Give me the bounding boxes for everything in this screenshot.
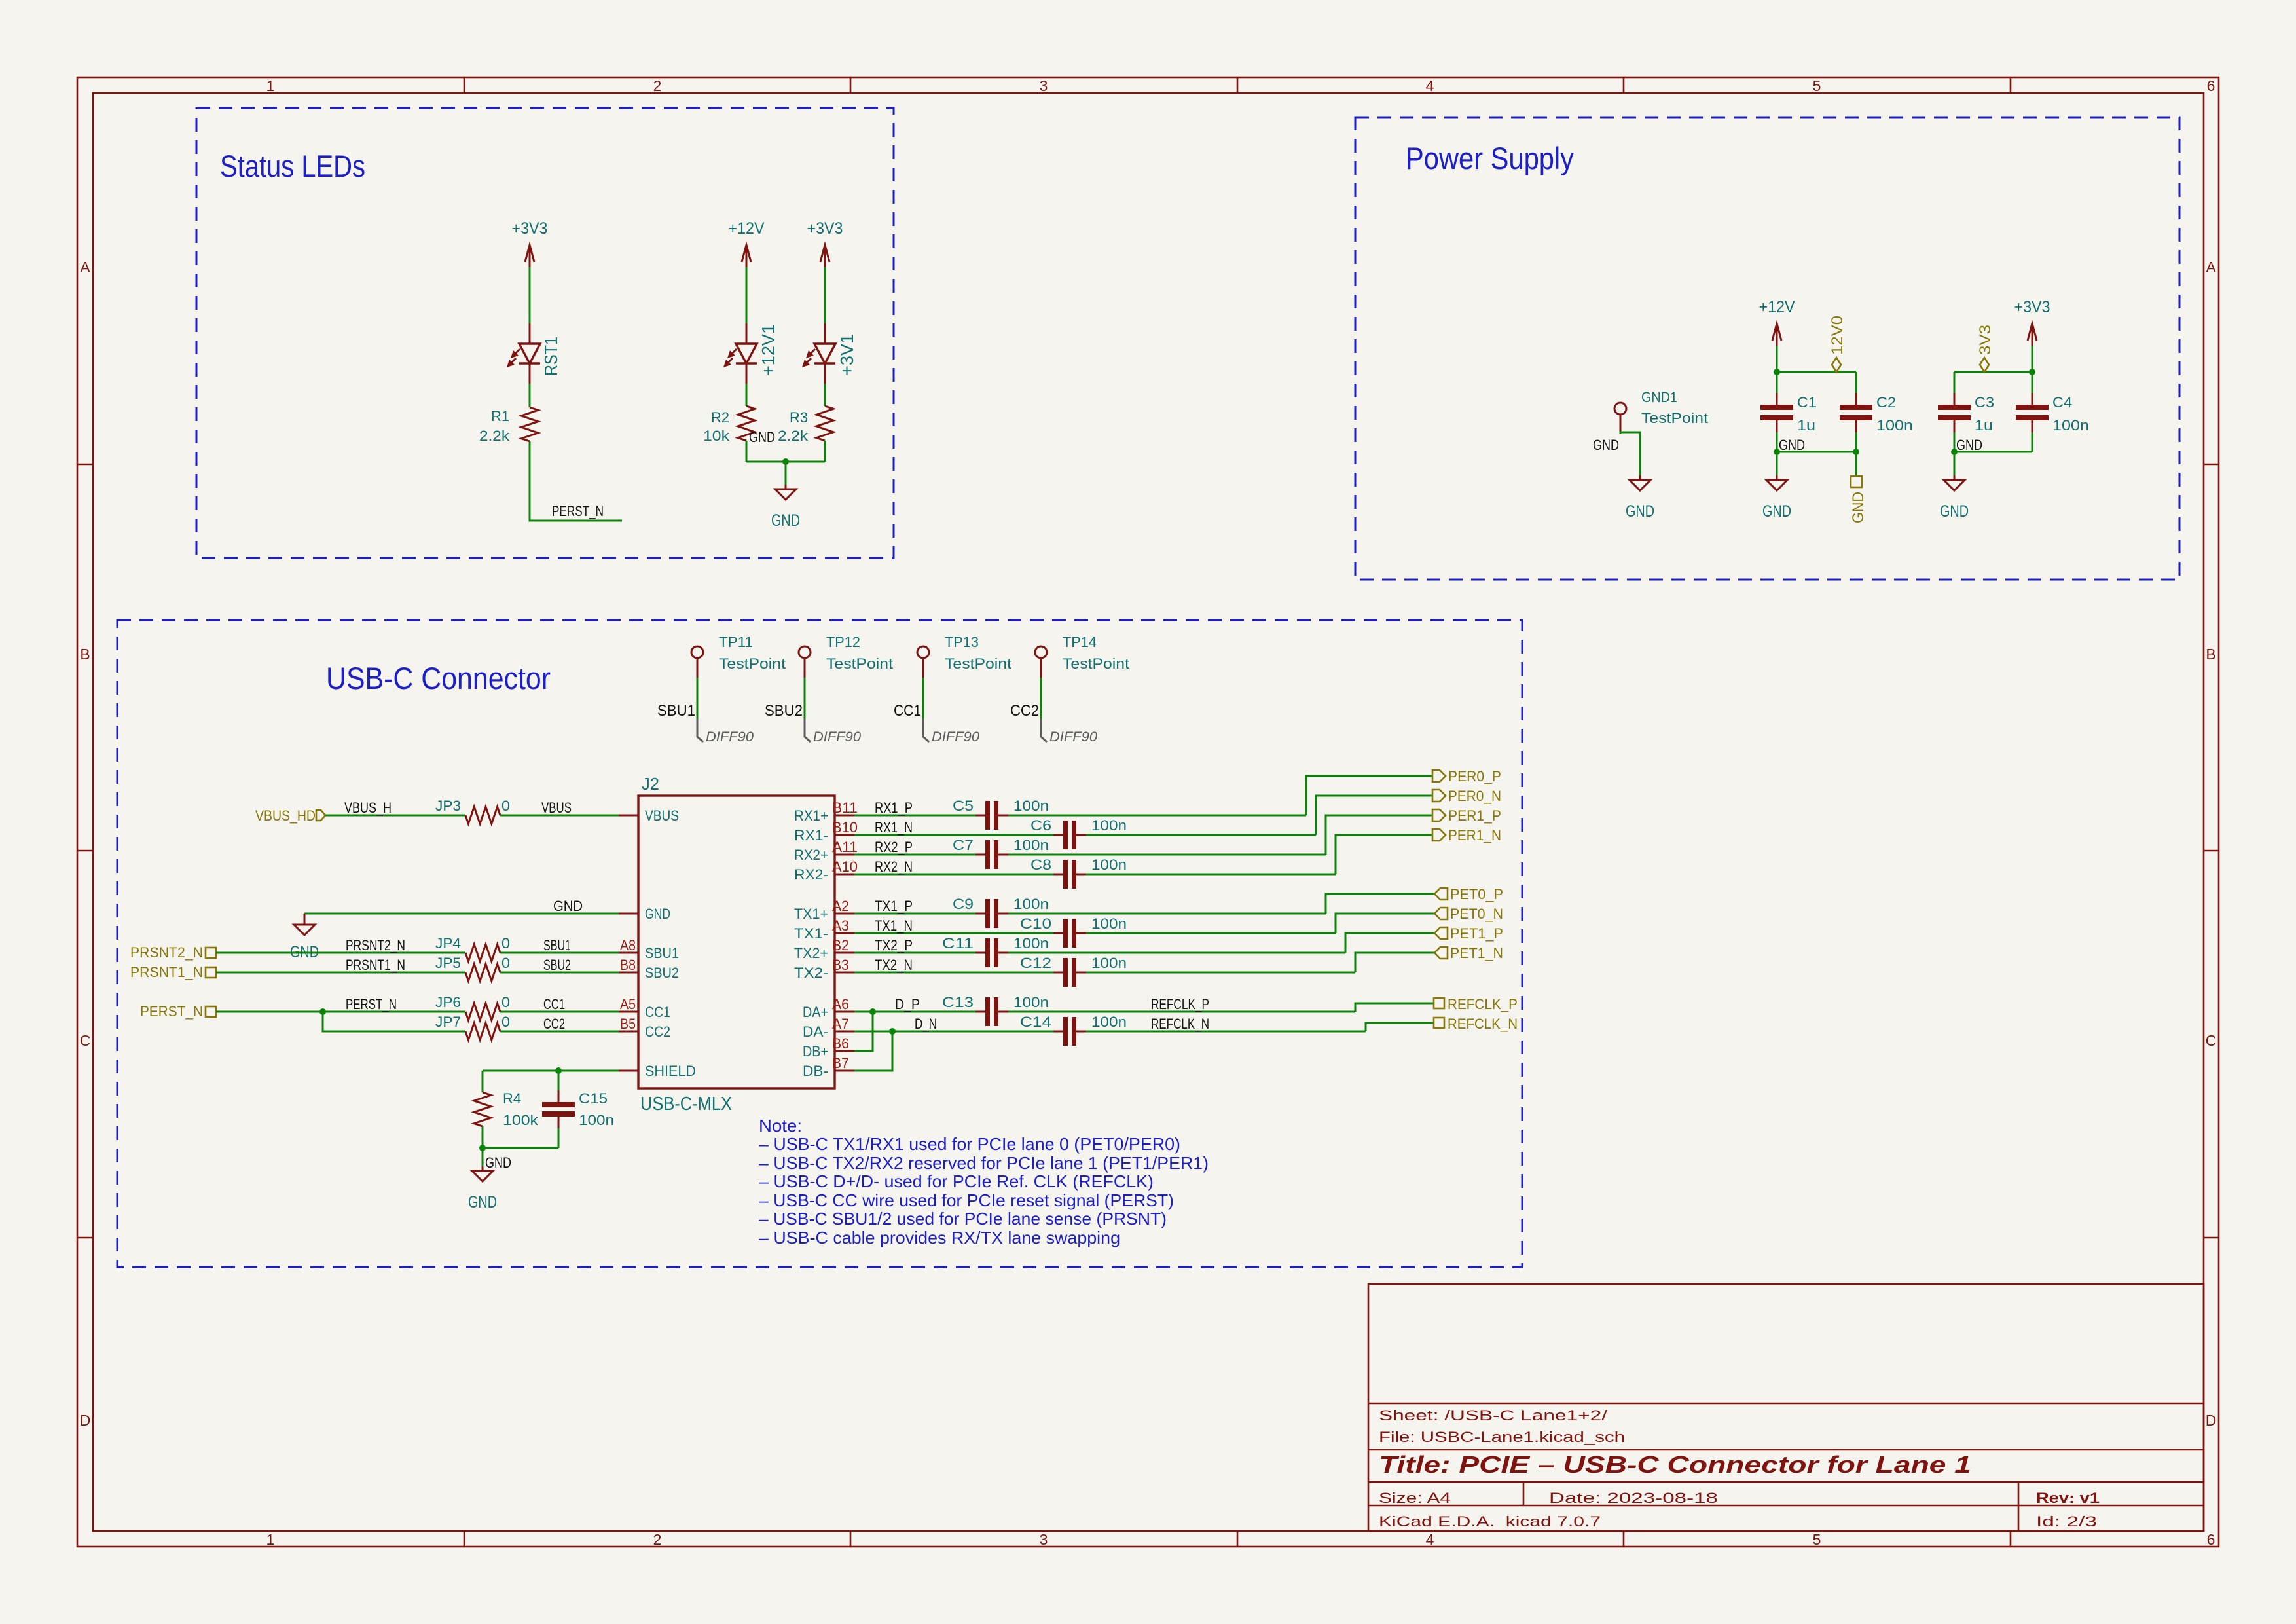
svg-text:100n: 100n [1091, 1014, 1127, 1030]
svg-text:C9: C9 [953, 896, 974, 912]
capacitor C8 100n [1030, 857, 1127, 889]
wire R4 to gnd rail [482, 1126, 484, 1148]
svg-text:1u: 1u [1975, 417, 1993, 434]
svg-text:C: C [2206, 1032, 2217, 1049]
svg-text:J2: J2 [642, 774, 659, 794]
svg-text:GND: GND [1626, 502, 1654, 521]
svg-text:C: C [80, 1032, 91, 1049]
svg-text:VBUS_H: VBUS_H [344, 800, 392, 816]
svg-text:C8: C8 [1030, 857, 1051, 873]
svg-text:– USB-C cable provides RX/TX l: – USB-C cable provides RX/TX lane swappi… [759, 1228, 1120, 1247]
svg-text:5: 5 [1813, 1531, 1821, 1548]
svg-text:TP12: TP12 [826, 634, 860, 650]
wire TX2_N [854, 972, 1053, 974]
netclass directive DIFF90 (TP12) [805, 718, 811, 742]
svg-text:PRSNT2_N: PRSNT2_N [346, 937, 405, 953]
J2 pin RX2+ (right) [835, 854, 854, 856]
J2 pin TX1+ (right) [835, 913, 854, 915]
capacitor C15 100n [558, 1071, 560, 1090]
wire JP5 to J2 SBU2 [500, 972, 619, 974]
svg-text:A3: A3 [832, 917, 849, 934]
svg-text:PET1_P: PET1_P [1450, 925, 1503, 942]
svg-text:SBU1: SBU1 [543, 937, 571, 953]
svg-text:R2: R2 [711, 409, 729, 426]
svg-text:PER0_P: PER0_P [1448, 768, 1501, 784]
svg-text:SBU1: SBU1 [657, 702, 695, 720]
svg-text:CC1: CC1 [894, 702, 921, 720]
svg-text:C14: C14 [1020, 1014, 1051, 1030]
svg-text:A6: A6 [832, 996, 849, 1012]
svg-text:+12V: +12V [1759, 298, 1795, 316]
svg-text:TestPoint: TestPoint [1641, 410, 1708, 426]
svg-text:6: 6 [2207, 77, 2215, 94]
resistor JP5 0 [465, 964, 500, 981]
ground (J2 GND) [294, 925, 315, 935]
testpoint TP11 [691, 646, 703, 678]
J2 pin SBU1 (left) [619, 952, 638, 954]
svg-text:Date: 2023-08-18: Date: 2023-08-18 [1549, 1490, 1718, 1506]
svg-text:VBUS: VBUS [645, 807, 679, 824]
svg-text:GND: GND [749, 429, 775, 445]
svg-text:PET1_N: PET1_N [1450, 945, 1503, 961]
wire PERST_N branch to JP7 [323, 1012, 465, 1031]
svg-text:USB-C Connector: USB-C Connector [326, 661, 551, 695]
wire DA+/D_P [854, 1011, 975, 1013]
svg-text:TP11: TP11 [719, 634, 753, 650]
hierarchical label PET1_N [1434, 947, 1448, 959]
svg-text:C7: C7 [953, 837, 974, 853]
svg-text:CC2: CC2 [645, 1024, 670, 1040]
resistor R4 100k [474, 1092, 491, 1126]
svg-text:A: A [80, 259, 90, 276]
capacitor C14 100n [1020, 1014, 1127, 1046]
svg-text:GND1: GND1 [1641, 389, 1677, 405]
wire to R4 [482, 1071, 484, 1092]
svg-text:+3V3: +3V3 [807, 219, 843, 238]
svg-text:2.2k: 2.2k [479, 428, 510, 444]
power +3V3 (status LED D1) [512, 219, 548, 267]
svg-text:– USB-C D+/D- used for PCIe Re: – USB-C D+/D- used for PCIe Ref. CLK (RE… [759, 1172, 1154, 1191]
svg-text:RX2_N: RX2_N [875, 858, 913, 875]
svg-text:10k: 10k [703, 428, 730, 444]
svg-text:TP13: TP13 [945, 634, 979, 650]
svg-text:100n: 100n [1013, 896, 1049, 912]
svg-text:D_P: D_P [895, 996, 920, 1012]
wire DB- loop [854, 1031, 892, 1071]
svg-text:TX1_P: TX1_P [875, 898, 913, 914]
svg-text:1u: 1u [1797, 417, 1815, 434]
hierarchical label PET0_P [1434, 888, 1448, 900]
junction (PERST) [319, 1008, 326, 1015]
svg-text:TestPoint: TestPoint [826, 655, 893, 672]
wire +12V to LED [746, 267, 748, 323]
wire C3/C4 bottom rail [1954, 451, 2032, 453]
svg-text:1: 1 [266, 1531, 275, 1548]
junction (shield/C15) [555, 1067, 562, 1074]
Power Supply group box [1355, 117, 2179, 580]
svg-text:C5: C5 [953, 798, 974, 814]
svg-text:DB+: DB+ [803, 1043, 828, 1060]
J2 pin CC1 (left) [619, 1011, 638, 1013]
svg-text:C4: C4 [2052, 394, 2072, 411]
svg-text:TX1+: TX1+ [794, 906, 828, 922]
svg-text:JP5: JP5 [435, 955, 461, 971]
svg-text:RX1+: RX1+ [794, 807, 828, 824]
svg-text:B5: B5 [620, 1016, 636, 1032]
title block text [1379, 1407, 2100, 1530]
svg-text:5: 5 [1813, 77, 1821, 94]
junction DA+ [869, 1008, 876, 1015]
svg-text:Status LEDs: Status LEDs [220, 149, 365, 183]
wire DA-/D_N [854, 1031, 1053, 1033]
testpoint GND1 [1614, 403, 1626, 434]
wire TX1_P [854, 913, 975, 915]
title block [1368, 1284, 2204, 1531]
wire PRSNT2_N to JP4 [216, 952, 465, 954]
svg-text:KiCad E.D.A. kicad 7.0.7: KiCad E.D.A. kicad 7.0.7 [1379, 1513, 1601, 1530]
testpoint TP13 [917, 646, 929, 678]
svg-text:B11: B11 [832, 800, 858, 816]
J2 pin DA+ (right) [835, 1011, 854, 1013]
svg-text:RX2_P: RX2_P [875, 839, 913, 855]
svg-text:A7: A7 [832, 1016, 849, 1032]
global label GND (C2) [1855, 452, 1857, 476]
svg-text:– USB-C CC wire used for PCIe: – USB-C CC wire used for PCIe reset sign… [759, 1190, 1174, 1210]
ground (GND1) [1626, 452, 1654, 521]
svg-text:DIFF90: DIFF90 [932, 729, 979, 745]
svg-text:GND: GND [1593, 437, 1619, 453]
resistor JP6 0 [465, 1003, 500, 1020]
J2 pin TX1- (right) [835, 932, 854, 934]
svg-text:A: A [2206, 259, 2216, 276]
svg-text:100k: 100k [503, 1112, 539, 1128]
wire JP6 to J2 CC1 [500, 1011, 619, 1013]
svg-text:0: 0 [501, 935, 510, 951]
wire RX2_N [854, 874, 1053, 876]
resistor JP7 0 [465, 1023, 500, 1040]
svg-text:SHIELD: SHIELD [645, 1063, 696, 1079]
svg-text:R3: R3 [790, 409, 808, 426]
hierarchical label PRSNT2_N [206, 948, 216, 958]
svg-text:REFCLK_N: REFCLK_N [1151, 1016, 1209, 1032]
resistor R1 2.2k [521, 407, 538, 441]
J2 pin DB+ (right) [835, 1050, 854, 1052]
svg-text:REFCLK_P: REFCLK_P [1151, 996, 1209, 1012]
ground (R4/C15) [468, 1148, 497, 1211]
global label 3V3 [1980, 358, 1989, 372]
wire R1 to PERST_N [530, 441, 622, 521]
global label 12V0 [1832, 358, 1841, 372]
svg-text:GND: GND [468, 1193, 497, 1211]
junction C2 gnd [1853, 449, 1859, 455]
svg-text:3V3: 3V3 [1977, 325, 1994, 355]
svg-text:2: 2 [653, 1531, 662, 1548]
resistor R2 10k [738, 406, 755, 441]
svg-text:C10: C10 [1020, 915, 1051, 932]
svg-text:RX1_N: RX1_N [875, 819, 913, 836]
capacitor C13 100n [942, 994, 1049, 1026]
svg-text:2: 2 [653, 77, 662, 94]
wire JP4 to J2 SBU1 [500, 952, 619, 954]
wire LED to R3 [824, 384, 826, 406]
svg-text:TX1-: TX1- [794, 925, 828, 942]
svg-text:+12V: +12V [729, 219, 765, 238]
svg-text:R4: R4 [503, 1090, 521, 1107]
testpoint TP12 [799, 646, 811, 678]
svg-text:SBU2: SBU2 [765, 702, 803, 720]
capacitor C11 100n [942, 935, 1049, 967]
wire JP3 to J2 VBUS [500, 815, 619, 817]
svg-text:SBU2: SBU2 [645, 965, 679, 981]
wire R2/R3 to GND rail [746, 441, 748, 462]
J2 pin RX1- (right) [835, 834, 854, 836]
J2 pin SBU2 (left) [619, 972, 638, 974]
svg-text:PER1_N: PER1_N [1448, 827, 1501, 843]
svg-text:C1: C1 [1797, 394, 1817, 411]
svg-text:A10: A10 [832, 858, 858, 875]
svg-text:C6: C6 [1030, 817, 1051, 834]
capacitor C4 100n [2016, 372, 2089, 452]
svg-text:100n: 100n [1091, 857, 1127, 873]
svg-text:3: 3 [1040, 1531, 1048, 1548]
capacitor C7 100n [953, 837, 1049, 869]
USB-C Connector group box [117, 620, 1522, 1267]
svg-text:PRSNT2_N: PRSNT2_N [130, 944, 203, 961]
svg-text:B6: B6 [832, 1035, 849, 1052]
junction (status gnd rail) [782, 458, 789, 465]
svg-text:A11: A11 [832, 839, 858, 855]
svg-text:TX2_P: TX2_P [875, 937, 913, 953]
svg-text:REFCLK_P: REFCLK_P [1448, 996, 1518, 1012]
J2 pin TX2- (right) [835, 972, 854, 974]
svg-text:GND: GND [1956, 437, 1982, 453]
wire PRSNT1_N to JP5 [216, 972, 465, 974]
svg-text:B: B [2206, 646, 2215, 663]
hierarchical label PER1_P [1432, 809, 1446, 821]
wire SBU2 to TP12 [804, 678, 806, 718]
svg-text:PERST_N: PERST_N [140, 1003, 203, 1020]
Status LEDs group box [196, 108, 894, 558]
wire JP7 to J2 CC2 [500, 1031, 619, 1033]
svg-text:100n: 100n [1876, 417, 1913, 434]
wire CC2 to TP14 [1040, 678, 1042, 718]
svg-text:USB-C-MLX: USB-C-MLX [640, 1094, 732, 1115]
capacitor C9 100n [953, 896, 1049, 928]
svg-text:R1: R1 [491, 408, 509, 424]
svg-text:100n: 100n [1013, 994, 1049, 1010]
svg-text:GND: GND [553, 898, 583, 914]
svg-text:0: 0 [501, 994, 510, 1010]
wire GND1 to ground [1620, 432, 1640, 452]
svg-text:REFCLK_N: REFCLK_N [1448, 1016, 1518, 1032]
svg-text:A8: A8 [620, 937, 636, 953]
svg-text:CC2: CC2 [543, 1016, 565, 1032]
wire LED to R2 [746, 384, 748, 406]
wire RX1_N [854, 834, 1053, 836]
svg-text:0: 0 [501, 955, 510, 971]
hierarchical label PET0_N [1434, 908, 1448, 919]
svg-text:Note:: Note: [759, 1116, 802, 1135]
svg-text:PERST_N: PERST_N [552, 503, 604, 519]
J2 pin GND (left) [619, 913, 638, 915]
LED +3V1 [802, 323, 835, 384]
svg-text:B10: B10 [832, 819, 858, 836]
svg-text:GND: GND [1940, 502, 1969, 521]
wire C15 to gnd rail [483, 1147, 558, 1149]
hierarchical label VBUS_HD [316, 810, 325, 821]
svg-text:TP14: TP14 [1063, 634, 1097, 650]
capacitor C12 100n [1020, 955, 1127, 987]
ground (C3) [1940, 452, 1969, 521]
svg-text:DIFF90: DIFF90 [813, 729, 861, 745]
svg-text:100n: 100n [1013, 837, 1049, 853]
junction C3 gnd [1951, 449, 1958, 455]
svg-text:File: USBC-Lane1.kicad_sch: File: USBC-Lane1.kicad_sch [1379, 1429, 1625, 1445]
svg-text:TX2-: TX2- [794, 965, 828, 981]
capacitor C1 1u [1760, 372, 1817, 452]
connector J2 USB-C-MLX [638, 796, 835, 1088]
svg-text:12V0: 12V0 [1829, 316, 1846, 355]
svg-text:JP7: JP7 [435, 1014, 461, 1030]
svg-text:TX2+: TX2+ [794, 945, 828, 961]
svg-text:0: 0 [501, 798, 510, 814]
svg-text:TestPoint: TestPoint [719, 655, 786, 672]
svg-text:DIFF90: DIFF90 [706, 729, 754, 745]
svg-text:TestPoint: TestPoint [1063, 655, 1129, 672]
svg-text:– USB-C TX2/RX2 reserved for P: – USB-C TX2/RX2 reserved for PCIe lane 1… [759, 1153, 1209, 1173]
ground (status LEDs) [771, 462, 800, 530]
svg-text:3: 3 [1040, 77, 1048, 94]
wire TX1_N [854, 932, 1053, 934]
svg-text:C3: C3 [1975, 394, 1994, 411]
hierarchical label PER0_P [1432, 770, 1446, 782]
wire +3V3 to LED [824, 267, 826, 323]
svg-text:D: D [80, 1412, 91, 1429]
svg-text:DB-: DB- [803, 1063, 828, 1079]
hierarchical label PERST_N [206, 1006, 216, 1017]
wire J2 GND to ground [304, 913, 619, 915]
svg-text:C13: C13 [942, 994, 974, 1010]
svg-text:GND: GND [645, 906, 670, 922]
LED RST1 [507, 323, 540, 384]
svg-text:100n: 100n [2052, 417, 2089, 434]
svg-text:PER0_N: PER0_N [1448, 788, 1501, 804]
svg-text:DA-: DA- [803, 1024, 828, 1040]
power +12V (supply) [1759, 298, 1795, 346]
svg-text:100n: 100n [1091, 915, 1127, 932]
junction (R4 gnd) [479, 1145, 486, 1151]
junction C1 gnd [1774, 449, 1780, 455]
power +3V3 (status LED 3) [807, 219, 843, 267]
svg-text:C2: C2 [1876, 394, 1896, 411]
svg-text:TestPoint: TestPoint [945, 655, 1011, 672]
wire +3V3 to LED RST1 [529, 267, 531, 323]
svg-text:VBUS_HD: VBUS_HD [255, 807, 316, 824]
testpoint TP14 [1035, 646, 1047, 678]
J2 pin DB- (right) [835, 1070, 854, 1072]
svg-text:PRSNT1_N: PRSNT1_N [130, 964, 203, 980]
svg-text:DA+: DA+ [803, 1004, 828, 1020]
svg-text:0: 0 [501, 1014, 510, 1030]
svg-text:RST1: RST1 [541, 337, 561, 376]
capacitor C6 100n [1030, 817, 1127, 849]
svg-text:100n: 100n [1091, 955, 1127, 971]
wire LED RST1 to R1 [529, 384, 531, 407]
svg-text:PERST_N: PERST_N [346, 996, 397, 1012]
svg-text:GND: GND [771, 511, 800, 530]
junction DA- [889, 1028, 896, 1035]
hierarchical label PER0_N [1432, 790, 1446, 802]
svg-text:B8: B8 [620, 957, 636, 973]
svg-text:CC2: CC2 [1010, 702, 1039, 720]
svg-text:100n: 100n [1013, 935, 1049, 951]
svg-text:C11: C11 [942, 935, 974, 951]
svg-text:CC1: CC1 [645, 1004, 670, 1020]
svg-text:B7: B7 [832, 1055, 849, 1071]
svg-text:+12V1: +12V1 [758, 324, 778, 376]
svg-text:GND: GND [1850, 492, 1867, 523]
hierarchical label PER1_N [1432, 829, 1446, 841]
junction (12V rail) [1774, 369, 1780, 375]
J2 pin VBUS (left) [619, 815, 638, 817]
svg-text:DIFF90: DIFF90 [1049, 729, 1097, 745]
resistor R3 2.2k [816, 406, 833, 441]
netclass directive DIFF90 (TP14) [1041, 718, 1047, 742]
resistor JP4 0 [465, 944, 500, 961]
svg-text:100n: 100n [579, 1112, 614, 1128]
svg-text:JP4: JP4 [435, 935, 461, 951]
hierarchical label PET1_P [1434, 927, 1448, 939]
svg-text:+3V3: +3V3 [2014, 298, 2050, 316]
svg-text:6: 6 [2207, 1531, 2215, 1548]
svg-text:PRSNT1_N: PRSNT1_N [346, 957, 405, 973]
svg-text:1: 1 [266, 77, 275, 94]
J2 pin RX1+ (right) [835, 815, 854, 817]
svg-text:C12: C12 [1020, 955, 1051, 971]
ground (C1) [1762, 452, 1791, 521]
wire TX2_P [854, 952, 975, 954]
svg-text:RX1_P: RX1_P [875, 800, 913, 816]
svg-text:D: D [2206, 1412, 2217, 1429]
svg-text:CC1: CC1 [543, 996, 565, 1012]
svg-text:4: 4 [1426, 1531, 1434, 1548]
wire +12V rail [1777, 371, 1856, 373]
svg-text:SBU1: SBU1 [645, 945, 679, 961]
netclass directive DIFF90 (TP13) [923, 718, 929, 742]
hierarchical label REFCLK_P [1434, 998, 1444, 1008]
svg-text:JP3: JP3 [435, 798, 461, 814]
svg-text:VBUS: VBUS [541, 800, 572, 816]
power +12V (status LED 2) [729, 219, 765, 267]
svg-text:GND: GND [485, 1154, 511, 1171]
wire VBUS_HD to JP3 [325, 815, 465, 817]
svg-text:TX1_N: TX1_N [875, 917, 913, 934]
LED +12V1 [723, 323, 757, 384]
J2 pin RX2- (right) [835, 874, 854, 876]
svg-text:Sheet: /USB-C Lane1+2/: Sheet: /USB-C Lane1+2/ [1379, 1407, 1608, 1424]
wire C1/C2 bottom rail [1777, 451, 1856, 453]
svg-text:Power Supply: Power Supply [1406, 141, 1574, 175]
junction (3V3 rail) [2029, 369, 2035, 375]
svg-text:Title: PCIE – USB-C Connector: Title: PCIE – USB-C Connector for Lane 1 [1379, 1451, 1971, 1478]
resistor JP3 0 [465, 807, 500, 824]
svg-text:– USB-C TX1/RX1 used for PCIe: – USB-C TX1/RX1 used for PCIe lane 0 (PE… [759, 1134, 1180, 1154]
wire PERST_N to JP6 [216, 1011, 465, 1013]
svg-text:Rev: v1: Rev: v1 [2036, 1490, 2100, 1506]
svg-text:A2: A2 [832, 898, 849, 914]
wire SHIELD net [483, 1070, 619, 1072]
hierarchical label PRSNT1_N [206, 967, 216, 978]
